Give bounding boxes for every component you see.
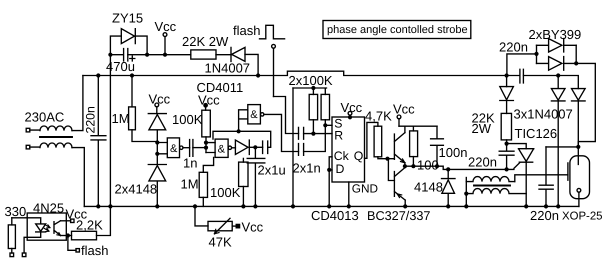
resistor 22K 2W (left) bbox=[191, 50, 216, 59]
junction shunt diode at bottom bus bbox=[556, 204, 560, 208]
diode D 4148 lower (clamp to gnd) bbox=[148, 165, 166, 207]
capacitor C 470u bbox=[124, 49, 135, 62]
svg-text:220n: 220n bbox=[84, 106, 98, 134]
flip-flop U2 CD4013 box bbox=[332, 117, 365, 182]
power Vcc terminal (CD4013) bbox=[348, 111, 352, 117]
wire 2x100K common rail bbox=[293, 88, 327, 94]
wire collector to Vcc terminal bbox=[61, 220, 71, 222]
node AC terminal 2 bbox=[26, 145, 30, 149]
transformer T2 core bbox=[474, 185, 510, 187]
node input terminal 2 bbox=[22, 253, 26, 257]
junction emitter/flash out bbox=[66, 233, 70, 237]
resistor 4,7K bbox=[374, 126, 394, 159]
wire S input bbox=[304, 125, 332, 151]
capacitor C 1n bbox=[190, 140, 193, 157]
junction snubber bus bbox=[505, 73, 509, 77]
junction T2 windings left bbox=[464, 192, 468, 196]
power Vcc terminal (pot) bbox=[236, 224, 239, 227]
junction Vcc at box bbox=[348, 115, 352, 119]
junction 1u at bus bbox=[253, 204, 257, 208]
wire bus to 47K bbox=[195, 206, 208, 226]
svg-text:&: & bbox=[218, 143, 226, 155]
svg-text:&: & bbox=[170, 143, 178, 155]
node input terminal 1 bbox=[10, 253, 14, 257]
svg-text:Q: Q bbox=[354, 149, 364, 163]
transformer T2 secondary bbox=[466, 189, 526, 194]
junction 2x100K rail bbox=[311, 86, 315, 90]
svg-text:2x4148: 2x4148 bbox=[115, 182, 158, 197]
svg-text:Vcc: Vcc bbox=[198, 93, 220, 108]
wire 1N4007 to mains bus bbox=[245, 54, 258, 75]
wire transformer lower end to bottom bus bbox=[72, 148, 84, 207]
wire T2 left leg to bus bbox=[465, 178, 467, 207]
junction 220n top bbox=[96, 73, 100, 77]
junction pulldown at bus bbox=[291, 204, 295, 208]
power Vcc terminal (opto) bbox=[71, 219, 74, 222]
resistor 330 bbox=[8, 218, 15, 253]
wire ZY15 cathode/470u right to Vcc node bbox=[128, 36, 191, 55]
junction 100n at output bbox=[435, 164, 439, 168]
svg-text:BC327/337: BC327/337 bbox=[367, 209, 431, 223]
svg-text:1M: 1M bbox=[112, 111, 130, 126]
svg-text:flash: flash bbox=[81, 243, 108, 258]
junction DC- line at bottom bus bbox=[108, 204, 112, 208]
junction S wire bbox=[323, 123, 327, 127]
wire feedback to gate2 bbox=[213, 131, 271, 147]
wire 1n to gate2 input bbox=[193, 147, 206, 149]
transistor Q1 BC337 (upper, NPN) bbox=[394, 133, 405, 163]
diode D one-shot bbox=[235, 140, 249, 155]
junction 4148 at bus bbox=[446, 204, 450, 208]
transformer T1 primary winding bbox=[30, 126, 72, 131]
resistor 1M (timing) bbox=[199, 157, 213, 206]
wire Vcc rail of driver bbox=[399, 125, 437, 127]
diode D BY399 upper bbox=[537, 39, 577, 52]
wire R input bbox=[304, 133, 332, 135]
wire diode to 1u cap bbox=[249, 146, 262, 148]
wire Ck/D tie to ground bbox=[329, 157, 332, 207]
wire Q1 emitter / Q2 collector output node bbox=[404, 163, 406, 168]
wire 100K pulldown drop to bus bbox=[292, 88, 294, 206]
wire 2,2K to DC- line bbox=[97, 206, 111, 235]
capacitor C 1u (series) bbox=[263, 141, 268, 154]
junction clamp diode at bus bbox=[155, 204, 159, 208]
power Vcc terminal (gate bias) bbox=[204, 104, 207, 111]
junction shunt diode at bus top bbox=[556, 73, 560, 77]
junction 470u right bbox=[145, 53, 149, 57]
resistor 2,2K bbox=[72, 231, 97, 240]
svg-text:D: D bbox=[336, 162, 345, 176]
capacitor C 1u (shunt) bbox=[247, 147, 265, 206]
svg-text:230AC: 230AC bbox=[25, 110, 65, 125]
svg-text:phase angle contolled strobe: phase angle contolled strobe bbox=[327, 24, 468, 36]
svg-text:Vcc: Vcc bbox=[242, 220, 264, 235]
junction pot feed at bus bbox=[193, 204, 197, 208]
svg-text:R: R bbox=[334, 129, 343, 143]
wire Q2 emitter to bus bbox=[404, 200, 406, 206]
svg-text:47K: 47K bbox=[209, 234, 232, 249]
wire lamp anode line bbox=[546, 146, 578, 148]
diode D BY399 lower bbox=[537, 57, 577, 71]
junction mains bus / 1N4007 bbox=[256, 73, 260, 77]
svg-text:220n: 220n bbox=[530, 208, 559, 223]
wire transformer upper end to top bus bbox=[72, 76, 83, 131]
wire trigger output line bbox=[405, 166, 514, 169]
svg-text:100n: 100n bbox=[439, 145, 468, 160]
wire T2 primary right to lamp trigger bbox=[515, 175, 568, 182]
svg-text:ZY15: ZY15 bbox=[112, 11, 143, 26]
svg-text:2x100K: 2x100K bbox=[289, 73, 333, 88]
wire bus to BY399 anodes bbox=[507, 45, 537, 75]
junction clamp node lower bbox=[155, 152, 159, 156]
junction gate line at cap bbox=[505, 167, 509, 171]
resistor 100K (R pulldown) bbox=[309, 94, 317, 133]
power Vcc terminal (clamp) bbox=[155, 103, 159, 114]
svg-text:4N25: 4N25 bbox=[33, 200, 64, 215]
node flash input terminal bbox=[272, 44, 276, 48]
flash tube XOP-25 bbox=[568, 147, 590, 207]
wire emitter node bbox=[61, 235, 72, 237]
wire 22K to 1N4007 bbox=[216, 54, 231, 56]
svg-text:330: 330 bbox=[5, 204, 27, 219]
wire flash input down bbox=[273, 48, 275, 96]
wire clamp node bbox=[156, 143, 158, 165]
wire 47K to Vcc terminal bbox=[232, 225, 236, 227]
potentiometer 47K bbox=[208, 218, 232, 234]
junction Q2 emitter at bus bbox=[403, 204, 407, 208]
transistor Q2 BC327 (lower, PNP) bbox=[394, 168, 405, 201]
wire GND pin to bus bbox=[348, 182, 350, 206]
resistor 22K 2W (charge) bbox=[501, 113, 511, 143]
svg-text:CD4013: CD4013 bbox=[311, 208, 359, 223]
wire flash output bbox=[68, 236, 76, 251]
diode 1N4007 (feed) bbox=[231, 47, 245, 61]
svg-text:1M: 1M bbox=[181, 176, 199, 191]
transformer T2 trigger primary bbox=[466, 177, 515, 182]
svg-text:flash: flash bbox=[233, 23, 260, 38]
svg-text:Vcc: Vcc bbox=[393, 101, 415, 116]
wire ZY15 anode/470u left node bbox=[110, 36, 123, 206]
wire gate2 input stubs bbox=[206, 143, 215, 153]
svg-text:2xBY399: 2xBY399 bbox=[529, 27, 582, 42]
capacitor 220n (mains filter) bbox=[91, 76, 106, 207]
junction BY399 cathode bbox=[574, 61, 578, 65]
junction one-shot node bbox=[253, 145, 257, 149]
resistor 100K (one-shot bleed) bbox=[239, 158, 248, 206]
svg-text:Vcc: Vcc bbox=[341, 100, 363, 115]
LED light arrows bbox=[44, 225, 50, 232]
node AC terminal 1 bbox=[26, 128, 30, 132]
wire ground/return bottom bus bbox=[84, 205, 579, 207]
svg-text:220n: 220n bbox=[468, 155, 497, 170]
wire gate2 output bbox=[232, 147, 236, 149]
junction 100K at bus bbox=[241, 204, 245, 208]
wire thyristor cathode to bus bbox=[525, 162, 527, 206]
capacitor C 2x1n lower (S coupling) bbox=[299, 144, 304, 156]
resistor 100K (S pulldown) bbox=[321, 94, 329, 125]
diode D 4148 (flyback) bbox=[442, 169, 456, 206]
svg-text:22K 2W: 22K 2W bbox=[182, 34, 229, 49]
svg-text:4148: 4148 bbox=[414, 180, 443, 195]
junction GND at bus bbox=[347, 204, 351, 208]
node flash output terminal bbox=[76, 249, 79, 252]
capacitor C 220n (doubler series) bbox=[520, 69, 524, 83]
svg-text:2,2K: 2,2K bbox=[76, 217, 103, 232]
wire BY399 cathodes to lamp anode bbox=[576, 45, 595, 147]
diode D 4148 upper (clamp to Vcc) bbox=[148, 114, 166, 143]
svg-text:3x1N4007: 3x1N4007 bbox=[514, 107, 573, 122]
title box: phase angle contolled strobe bbox=[323, 21, 471, 39]
svg-text:&: & bbox=[250, 109, 258, 121]
svg-text:Vcc: Vcc bbox=[149, 92, 171, 107]
NAND gate U1A (CD4011) bbox=[167, 138, 183, 158]
LED inside 4N25 bbox=[12, 218, 46, 253]
svg-text:GND: GND bbox=[352, 182, 378, 196]
svg-text:TIC126: TIC126 bbox=[515, 126, 558, 141]
junction T2 at bus bbox=[464, 204, 468, 208]
junction gate2 input b bbox=[204, 146, 208, 150]
junction lamp anode node bbox=[576, 145, 580, 149]
junction Ck/D at bus bbox=[327, 204, 331, 208]
wire anode node to thyristor bbox=[507, 144, 527, 149]
wire bus to rectifier diode bbox=[506, 76, 508, 87]
optocoupler U3 4N25 box bbox=[27, 213, 66, 240]
wire AC top bus (with jog over 2x100K label) bbox=[83, 71, 578, 88]
svg-text:Ck: Ck bbox=[334, 149, 350, 163]
junction output node bbox=[403, 164, 407, 168]
zener diode ZY15 bbox=[121, 29, 135, 44]
svg-text:2x1n: 2x1n bbox=[293, 161, 321, 176]
flash pulse waveform symbol bbox=[260, 25, 285, 39]
junction feedback / gate3 input bbox=[237, 129, 241, 133]
wire base tie to lower transistor bbox=[388, 159, 394, 181]
junction clamp node upper bbox=[155, 140, 159, 144]
capacitor C 220n (gate) bbox=[499, 144, 514, 170]
wire flash net to R coupling cap bbox=[274, 97, 299, 134]
capacitor C 220n (lamp) bbox=[539, 147, 553, 207]
thyristor TIC126 bbox=[514, 149, 534, 169]
resistor 1M (sync divider) bbox=[129, 76, 158, 142]
junction BY399 anode bbox=[534, 52, 538, 56]
diode D 1N4007 (charger) bbox=[500, 87, 514, 114]
junction 4148 top bbox=[446, 167, 450, 171]
svg-text:4,7K: 4,7K bbox=[365, 108, 392, 123]
svg-text:Vcc: Vcc bbox=[155, 19, 177, 34]
svg-text:100K: 100K bbox=[172, 112, 203, 127]
resistor 100K (gate1 bias) bbox=[202, 110, 211, 152]
svg-text:2x1u: 2x1u bbox=[258, 163, 286, 178]
svg-text:1N4007: 1N4007 bbox=[205, 60, 251, 75]
junction thyristor at bus bbox=[524, 204, 528, 208]
junction 220n bottom bbox=[96, 204, 100, 208]
wire Q output to 4,7K bbox=[365, 122, 378, 158]
junction D input bbox=[327, 168, 331, 172]
svg-text:1n: 1n bbox=[183, 156, 197, 171]
NAND gate U1B (CD4011) bbox=[215, 139, 231, 157]
phototransistor inside 4N25 bbox=[54, 221, 61, 236]
transformer T1 core bbox=[40, 136, 72, 138]
wire gate1 output bbox=[183, 147, 190, 149]
junction thyristor anode node bbox=[505, 142, 509, 146]
NAND gate U1C (CD4011) bbox=[248, 105, 264, 124]
resistor 100 bbox=[410, 126, 418, 166]
junction 470u left bbox=[108, 53, 112, 57]
svg-text:470u: 470u bbox=[106, 59, 135, 74]
junction base drive bbox=[385, 157, 389, 161]
diode D 1N4007 (shunt) bbox=[551, 76, 565, 207]
junction 1M top at bus bbox=[130, 73, 134, 77]
wire Q1 collector to Vcc rail bbox=[404, 126, 406, 132]
junction lamp cap at bus bbox=[544, 204, 548, 208]
svg-text:220n: 220n bbox=[499, 40, 528, 55]
wire gate3 output to S coupling cap bbox=[264, 114, 299, 151]
junction Vcc wire bbox=[163, 53, 167, 57]
diode D 1N4007 (lamp feed) bbox=[572, 89, 586, 147]
wire gate3 input bar bbox=[239, 110, 248, 132]
svg-text:2W: 2W bbox=[472, 121, 492, 136]
junction gate2 input a bbox=[204, 141, 208, 145]
wire gate1 inputs bbox=[157, 143, 167, 154]
transformer T1 secondary winding bbox=[30, 143, 72, 148]
capacitor C 100n bbox=[431, 126, 444, 166]
svg-text:XOP-25: XOP-25 bbox=[562, 210, 603, 222]
junction 100 at output bbox=[411, 164, 415, 168]
capacitor C 2x1n upper (R coupling) bbox=[299, 127, 304, 139]
power Vcc terminal (driver) bbox=[397, 115, 401, 126]
svg-text:100K: 100K bbox=[210, 185, 241, 200]
power Vcc terminal (supply node) bbox=[163, 33, 167, 55]
junction R wire bbox=[311, 132, 315, 136]
